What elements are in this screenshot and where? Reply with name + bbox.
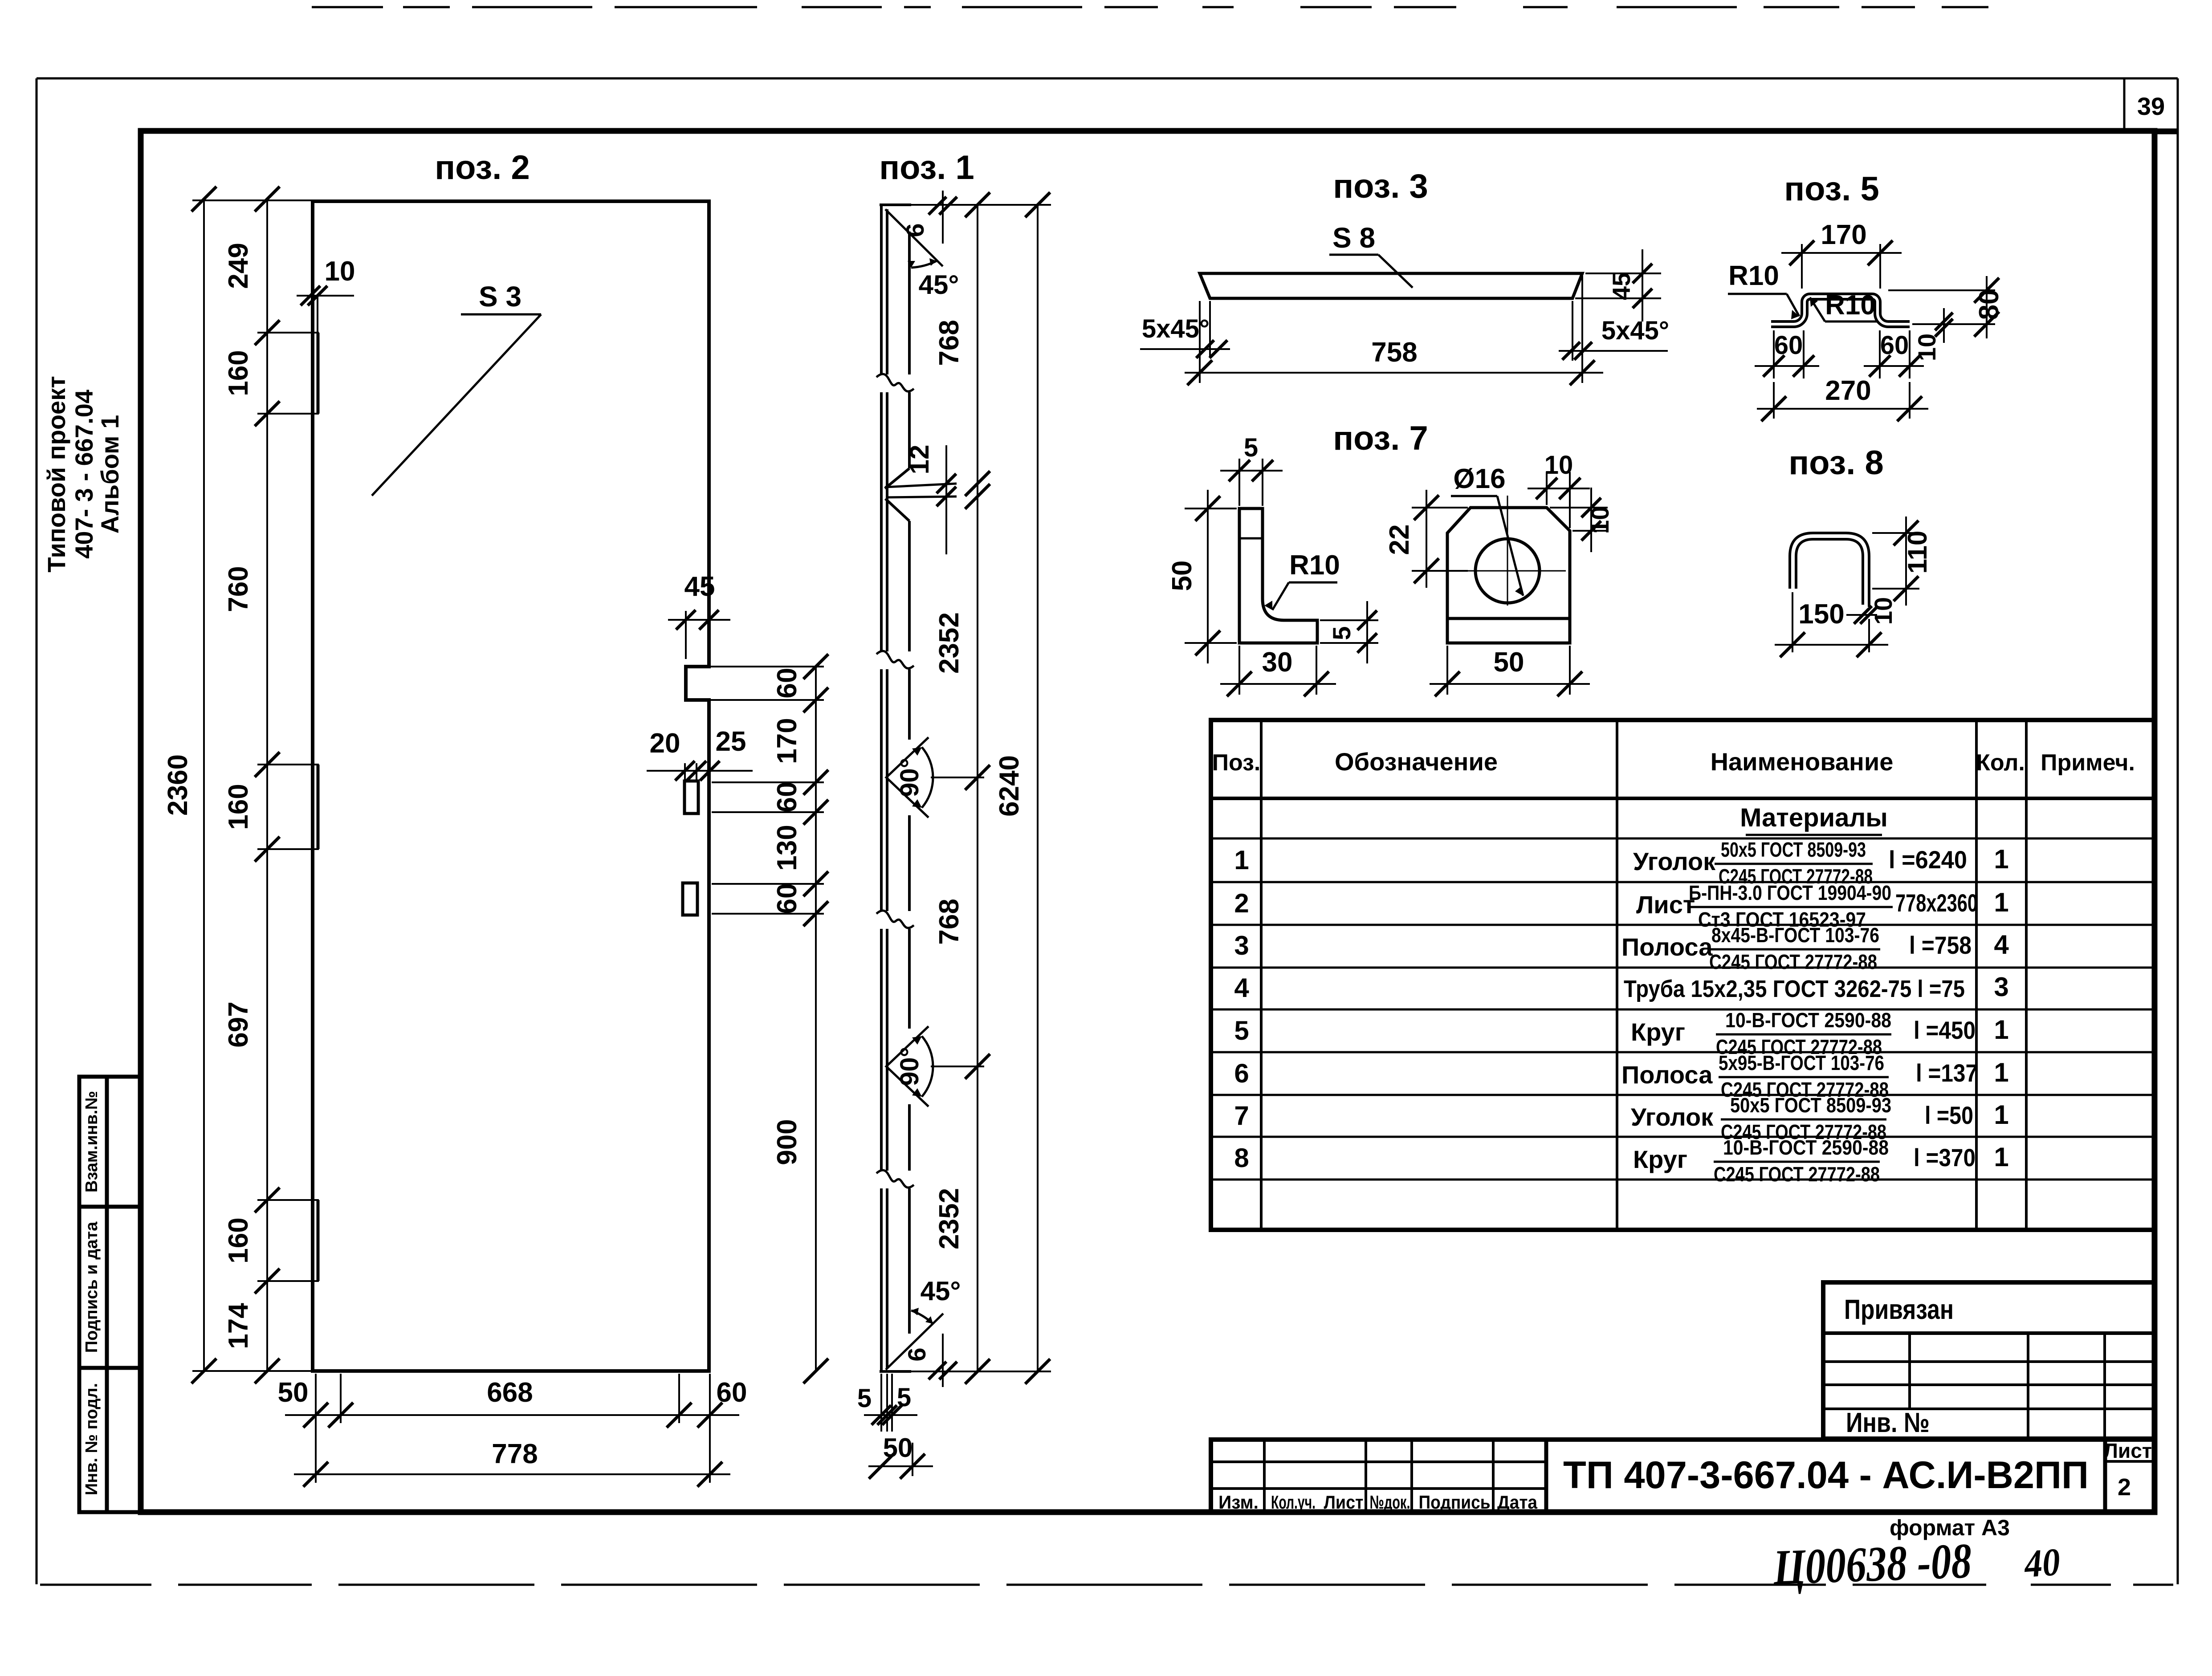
svg-text:160: 160	[223, 350, 254, 396]
pos.1 bottom 45deg cut	[880, 1370, 911, 1373]
svg-text:110: 110	[1902, 531, 1932, 574]
svg-text:174: 174	[223, 1303, 254, 1349]
svg-text:668: 668	[487, 1377, 533, 1408]
svg-text:5х45°: 5х45°	[1601, 316, 1669, 345]
page number box	[2123, 78, 2126, 131]
svg-text:S 8: S 8	[1332, 222, 1375, 254]
svg-text:5х95-В-ГОСТ 103-76: 5х95-В-ГОСТ 103-76	[1719, 1051, 1884, 1074]
svg-text:Подпись: Подпись	[1419, 1492, 1491, 1513]
svg-text:160: 160	[223, 1217, 254, 1263]
svg-text:№док.: №док.	[1370, 1492, 1410, 1513]
svg-text:10: 10	[1544, 451, 1573, 480]
pos.3 strip	[1200, 273, 1582, 298]
svg-text:2: 2	[1234, 888, 1249, 918]
svg-text:1: 1	[1994, 887, 2008, 917]
svg-text:1: 1	[1994, 844, 2008, 874]
svg-text:45: 45	[684, 571, 715, 602]
svg-text:50х5 ГОСТ 8509-93: 50х5 ГОСТ 8509-93	[1721, 838, 1866, 861]
svg-text:50: 50	[1494, 647, 1524, 678]
svg-text:3: 3	[1994, 972, 2008, 1002]
dim 45 (notch)	[685, 611, 687, 659]
svg-text:Привязан: Привязан	[1844, 1294, 1954, 1325]
svg-text:6: 6	[1234, 1058, 1249, 1088]
svg-text:170: 170	[772, 718, 803, 764]
svg-text:Уголок: Уголок	[1633, 847, 1716, 875]
svg-text:80: 80	[1974, 289, 2004, 320]
svg-text:60: 60	[772, 668, 803, 699]
dim 60 right	[1879, 330, 1881, 378]
dim 45 right	[1585, 273, 1661, 274]
break symbols	[876, 374, 914, 391]
svg-text:30: 30	[1262, 647, 1293, 678]
svg-text:50: 50	[883, 1433, 913, 1463]
dim 5 top	[1238, 459, 1240, 506]
outer sheet border	[37, 77, 2178, 80]
svg-text:Поз.: Поз.	[1212, 750, 1261, 776]
scan artifact dashes top	[312, 6, 1988, 8]
svg-text:778х2360: 778х2360	[1895, 889, 1978, 917]
dim 60 left	[1773, 330, 1775, 378]
svg-text:170: 170	[1821, 220, 1866, 250]
svg-text:45°: 45°	[919, 270, 959, 300]
svg-text:60: 60	[717, 1377, 747, 1408]
svg-text:407- 3 - 667.04: 407- 3 - 667.04	[70, 390, 98, 559]
svg-text:l =370: l =370	[1914, 1143, 1976, 1172]
dim 758	[1185, 372, 1603, 374]
dim 50/668/60 bottom	[285, 1414, 739, 1416]
svg-text:130: 130	[772, 825, 803, 871]
svg-text:60: 60	[772, 883, 803, 914]
svg-text:2: 2	[2118, 1474, 2131, 1501]
svg-text:Ø16: Ø16	[1453, 464, 1505, 494]
inner drawing frame	[141, 131, 2155, 1512]
svg-text:10-В-ГОСТ 2590-88: 10-В-ГОСТ 2590-88	[1725, 1009, 1891, 1032]
svg-text:поз. 5: поз. 5	[1784, 170, 1879, 208]
materials table	[1211, 720, 2155, 1230]
svg-text:1: 1	[1994, 1015, 2008, 1045]
dim 22	[1412, 507, 1468, 508]
svg-text:10-В-ГОСТ 2590-88: 10-В-ГОСТ 2590-88	[1723, 1136, 1889, 1159]
svg-text:60: 60	[772, 782, 803, 813]
svg-text:10: 10	[1913, 334, 1941, 361]
svg-text:45°: 45°	[921, 1276, 961, 1306]
svg-text:S 3: S 3	[479, 281, 521, 313]
svg-text:Обозначение: Обозначение	[1335, 748, 1498, 776]
svg-text:1: 1	[1994, 1100, 2008, 1130]
svg-text:1: 1	[1234, 845, 1249, 875]
svg-text:l =137: l =137	[1916, 1059, 1978, 1087]
svg-text:7: 7	[1234, 1101, 1249, 1131]
svg-text:2352: 2352	[934, 1188, 965, 1249]
svg-text:6: 6	[903, 1347, 931, 1361]
svg-text:Круг: Круг	[1633, 1145, 1687, 1173]
svg-text:768: 768	[934, 899, 965, 944]
svg-text:45: 45	[1607, 273, 1635, 300]
svg-text:l =50: l =50	[1925, 1101, 1973, 1129]
svg-text:8х45-В-ГОСТ 103-76: 8х45-В-ГОСТ 103-76	[1711, 923, 1879, 947]
pipe pos.4 (lower)	[683, 883, 697, 915]
svg-text:758: 758	[1371, 337, 1417, 368]
svg-text:С245 ГОСТ 27772-88: С245 ГОСТ 27772-88	[1714, 1163, 1880, 1186]
svg-text:Лист: Лист	[1324, 1492, 1364, 1513]
privyazan stamp box	[1823, 1282, 2155, 1439]
svg-text:768: 768	[934, 320, 965, 366]
svg-text:Дата: Дата	[1497, 1492, 1538, 1513]
svg-text:3: 3	[1234, 931, 1249, 960]
svg-text:160: 160	[223, 784, 254, 830]
svg-text:2352: 2352	[934, 612, 965, 674]
dim 270	[1773, 382, 1775, 419]
svg-text:поз. 1: поз. 1	[879, 149, 974, 187]
pos.5 bent rod profile	[1771, 294, 1910, 321]
dim chain 2360	[203, 199, 205, 1371]
svg-text:Инв. №: Инв. №	[1846, 1408, 1930, 1438]
svg-text:5: 5	[1234, 1016, 1249, 1045]
svg-text:поз. 8: поз. 8	[1788, 444, 1884, 482]
svg-text:Кол.уч.: Кол.уч.	[1271, 1492, 1316, 1513]
pipe pos.4 (upper)	[684, 781, 698, 814]
svg-text:Уголок: Уголок	[1631, 1103, 1714, 1131]
svg-text:900: 900	[772, 1119, 803, 1165]
dim 20 / 25	[647, 770, 753, 772]
svg-text:6240: 6240	[994, 755, 1025, 817]
svg-text:Материалы: Материалы	[1740, 803, 1888, 832]
pos.1 fold notch 90deg at 1746	[886, 737, 929, 818]
pos.7 angle section	[1239, 508, 1317, 643]
svg-text:Изм.: Изм.	[1218, 1492, 1259, 1513]
svg-text:10: 10	[1586, 506, 1614, 534]
pos.8 bent rod staple	[1790, 533, 1869, 607]
svg-text:20: 20	[650, 728, 680, 759]
dim 778 bottom	[294, 1473, 730, 1475]
svg-text:1: 1	[1994, 1058, 2008, 1087]
svg-text:Подпись и дата: Подпись и дата	[82, 1221, 101, 1353]
svg-text:40: 40	[2022, 1541, 2061, 1586]
svg-text:С245 ГОСТ 27772-88: С245 ГОСТ 27772-88	[1709, 950, 1877, 973]
svg-text:5: 5	[1328, 626, 1356, 640]
svg-text:50: 50	[278, 1377, 309, 1408]
svg-text:90°: 90°	[895, 1047, 924, 1086]
pos.1 fold notch 12	[885, 468, 909, 488]
left stamp boxes	[79, 1077, 141, 1512]
svg-text:249: 249	[223, 243, 254, 289]
svg-text:5: 5	[1244, 433, 1258, 462]
dim 150	[1792, 592, 1793, 652]
svg-text:150: 150	[1798, 599, 1844, 630]
svg-text:1: 1	[1994, 1142, 2008, 1172]
svg-text:R10: R10	[1825, 290, 1876, 321]
svg-text:60: 60	[1880, 331, 1909, 360]
extension lines pos.2 left	[192, 199, 312, 201]
svg-text:Инв. № подл.: Инв. № подл.	[82, 1383, 101, 1495]
svg-text:4: 4	[1994, 930, 2009, 960]
svg-text:25: 25	[716, 726, 746, 757]
svg-text:270: 270	[1825, 375, 1871, 406]
svg-text:90°: 90°	[895, 758, 924, 797]
svg-text:Альбом 1: Альбом 1	[96, 415, 124, 534]
svg-text:22: 22	[1384, 525, 1415, 555]
dim 5 right	[1320, 619, 1378, 621]
dim 10 top	[1546, 472, 1548, 505]
pos.1 angle strip edge-on	[880, 206, 883, 374]
svg-text:12: 12	[904, 445, 934, 475]
svg-text:Круг: Круг	[1631, 1018, 1685, 1046]
svg-text:Кол.: Кол.	[1976, 750, 2025, 776]
svg-text:Лист: Лист	[2104, 1439, 2152, 1462]
dim 50 left	[1185, 508, 1237, 509]
svg-text:Ц00638 -08: Ц00638 -08	[1772, 1533, 1972, 1595]
svg-text:Типовой проект: Типовой проект	[42, 376, 70, 572]
dim 80	[1888, 289, 1995, 291]
dim 50 bottom	[1446, 646, 1448, 695]
svg-text:Примеч.: Примеч.	[2041, 750, 2135, 776]
svg-text:760: 760	[223, 566, 254, 612]
svg-text:R10: R10	[1728, 260, 1779, 291]
pos.1 fold notch 90deg at 2395	[886, 1026, 929, 1106]
dim chain segments 249/160/760/160/697/160/174	[266, 199, 268, 1371]
svg-text:4: 4	[1234, 973, 1249, 1003]
svg-text:697: 697	[223, 1001, 254, 1047]
pos.2 edge strips (3 tabs)	[317, 333, 320, 414]
hole Ø16	[1475, 539, 1540, 603]
svg-text:Наименование: Наименование	[1711, 748, 1894, 776]
svg-text:Труба 15х2,35 ГОСТ 3262-75 l: Труба 15х2,35 ГОСТ 3262-75 l =75	[1624, 976, 1965, 1002]
svg-text:60: 60	[1774, 331, 1803, 360]
svg-text:Лист: Лист	[1636, 891, 1695, 919]
pos.7 plate with hole	[1447, 508, 1570, 643]
svg-text:l =758: l =758	[1909, 931, 1972, 959]
svg-text:6: 6	[901, 223, 929, 237]
svg-text:поз. 2: поз. 2	[435, 149, 530, 187]
dim 30	[1316, 646, 1317, 695]
svg-text:5: 5	[857, 1384, 872, 1413]
svg-text:50х5 ГОСТ 8509-93: 50х5 ГОСТ 8509-93	[1730, 1094, 1891, 1117]
dim 170	[1801, 244, 1803, 289]
svg-text:10: 10	[325, 256, 355, 287]
dim chain 768/12/2352/768/2352	[977, 205, 978, 1371]
svg-text:Полоса: Полоса	[1621, 1061, 1713, 1089]
dims 5/5 and 50 pos.1 bottom	[880, 1374, 882, 1432]
dim chain right 60/170/60/130/60/900	[815, 667, 817, 1371]
pos.1 top 45deg cut	[880, 203, 911, 206]
pos.2 plate outline	[313, 201, 709, 1371]
svg-text:5: 5	[897, 1383, 911, 1412]
svg-text:l =6240: l =6240	[1889, 846, 1967, 874]
dim 10 (strip offset)	[297, 295, 354, 297]
dim 110	[1872, 532, 1919, 534]
svg-text:l =450: l =450	[1914, 1016, 1976, 1044]
svg-text:Полоса: Полоса	[1621, 933, 1713, 961]
svg-text:Взам.инв.№: Взам.инв.№	[82, 1091, 101, 1192]
svg-text:39: 39	[2137, 92, 2165, 120]
svg-text:8: 8	[1234, 1143, 1249, 1173]
svg-text:поз. 7: поз. 7	[1333, 419, 1428, 457]
svg-text:2360: 2360	[163, 754, 193, 816]
svg-text:50: 50	[1167, 561, 1198, 591]
svg-text:поз. 3: поз. 3	[1333, 167, 1428, 205]
dim 6240	[1037, 205, 1039, 1371]
dim 10 right	[1550, 507, 1608, 508]
svg-text:R10: R10	[1289, 550, 1340, 581]
svg-text:778: 778	[492, 1439, 538, 1469]
svg-text:Б-ПН-3.0 ГОСТ 19904-90: Б-ПН-3.0 ГОСТ 19904-90	[1689, 881, 1891, 904]
svg-text:ТП 407-3-667.04 - АС.И-В2ПП: ТП 407-3-667.04 - АС.И-В2ПП	[1563, 1454, 2089, 1497]
title block	[1211, 1440, 2155, 1512]
